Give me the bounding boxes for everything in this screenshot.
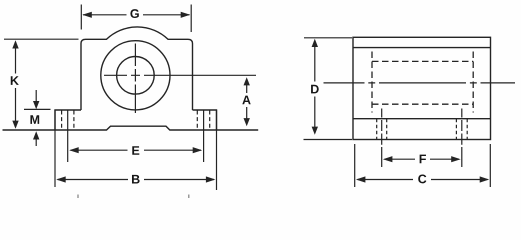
E left arrow bbox=[69, 147, 79, 153]
F dimension line bbox=[385, 158, 460, 160]
D down arrow bbox=[312, 127, 318, 135]
faint cropped marks at bottom edge bbox=[78, 195, 189, 199]
M upper arrow shaft bbox=[35, 90, 37, 102]
B dimension line bbox=[58, 179, 215, 181]
K top extension line (block top extended left) bbox=[4, 38, 79, 40]
label M bbox=[30, 115, 39, 124]
C dimension line bbox=[358, 179, 488, 181]
M down (upper) arrow bbox=[33, 101, 39, 109]
label B bbox=[132, 175, 140, 184]
K dimension line bbox=[15, 42, 17, 127]
arrowheads bbox=[12, 12, 489, 183]
C extension line right bbox=[489, 144, 491, 187]
F right arrow bbox=[451, 156, 461, 162]
bore inner circle bbox=[117, 57, 155, 95]
side view right hole center line bbox=[461, 109, 463, 145]
G dimension line bbox=[83, 14, 190, 16]
F left arrow bbox=[383, 156, 393, 162]
dimension letters (Liberation Sans Bold outlines) bbox=[11, 9, 427, 183]
hidden bearing rectangle bottom (dashed) bbox=[372, 103, 473, 105]
M top reference line (base step top extended left) bbox=[24, 108, 51, 110]
side view horizontal center line bbox=[324, 82, 516, 84]
base right edge extended down (B extension line) bbox=[216, 110, 218, 190]
G right arrow bbox=[181, 12, 191, 18]
right mounting hole center line / E extension bbox=[203, 110, 205, 163]
B left arrow bbox=[56, 176, 65, 182]
side view base band line bbox=[353, 118, 491, 120]
C right arrow bbox=[480, 176, 490, 182]
hidden bearing rectangle top (dashed) bbox=[372, 60, 473, 62]
side view left hole center line bbox=[381, 109, 383, 145]
left mounting hole center line / E extension bbox=[67, 110, 69, 163]
A up arrow bbox=[244, 77, 250, 85]
label C bbox=[418, 174, 426, 183]
E right arrow bbox=[193, 147, 203, 153]
K down arrow bbox=[12, 121, 18, 129]
D dimension line bbox=[314, 41, 316, 127]
C left arrow bbox=[356, 176, 366, 182]
A down arrow bbox=[244, 118, 250, 126]
D top extension line bbox=[304, 37, 352, 39]
side view outer rectangle bbox=[353, 37, 491, 139]
bore vertical center line bbox=[134, 44, 136, 114]
C extension line left bbox=[354, 144, 356, 187]
pillow block body outline with top dome bbox=[81, 27, 193, 110]
label E bbox=[132, 146, 139, 155]
label D bbox=[311, 85, 319, 94]
bore horizontal center line extended right for A dimension bbox=[104, 74, 256, 76]
D up arrow bbox=[312, 39, 318, 47]
base flange left side bbox=[55, 110, 81, 130]
left mounting hole hidden edges bbox=[62, 111, 74, 130]
M up (lower) arrow bbox=[33, 131, 39, 139]
K up arrow bbox=[12, 40, 18, 48]
side view right hole hidden edges bbox=[456, 119, 467, 140]
base bottom line with center relief, extended left and right as reference line bbox=[3, 126, 259, 130]
side view top face line bbox=[353, 47, 491, 49]
label F bbox=[420, 155, 426, 164]
base flange right side bbox=[193, 110, 217, 130]
G left arrow bbox=[82, 12, 92, 18]
label A bbox=[242, 96, 250, 105]
base left edge extended down (B extension line) bbox=[54, 110, 56, 187]
D bottom extension line bbox=[304, 139, 353, 141]
F extension line right bbox=[461, 147, 463, 167]
M lower arrow shaft bbox=[35, 139, 37, 146]
label K bbox=[11, 76, 19, 85]
hidden bore right edge (dashed, overruns) bbox=[472, 52, 474, 113]
label G bbox=[130, 9, 138, 18]
E dimension line bbox=[71, 149, 202, 151]
F extension line left bbox=[381, 147, 383, 167]
B right arrow bbox=[206, 176, 216, 182]
bore outer circle bbox=[101, 41, 170, 110]
A dimension line bbox=[246, 79, 248, 119]
G dimension extension lines bbox=[81, 5, 191, 33]
hidden bore left edge (dashed, overruns) bbox=[371, 52, 373, 113]
side view left hole hidden edges bbox=[377, 119, 387, 140]
right mounting hole hidden edges bbox=[197, 111, 209, 130]
